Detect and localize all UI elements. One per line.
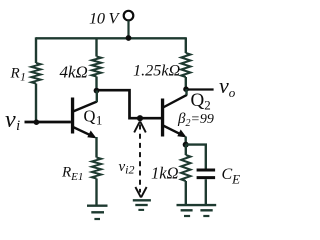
wire RE1 to ground <box>95 179 97 205</box>
wire R1 branch lower <box>35 84 37 123</box>
svg-text:1.25kΩ: 1.25kΩ <box>133 61 181 79</box>
svg-text:1kΩ: 1kΩ <box>151 164 179 183</box>
wire 1k to ground <box>185 181 187 204</box>
resistor R1 <box>31 63 40 84</box>
svg-text:10 V: 10 V <box>89 8 120 27</box>
resistor 1.25kOhm <box>181 53 190 77</box>
ground RE1 <box>87 206 108 219</box>
arrow vi2 up (open arrowhead under node) <box>134 122 146 133</box>
transistor Q2 <box>161 89 187 137</box>
node vo junction dot <box>183 86 189 92</box>
supply terminal circle 10V <box>124 11 134 38</box>
wire capacitor to ground <box>205 179 207 204</box>
capacitor CE <box>197 170 216 178</box>
wire 4k branch lower <box>95 77 97 91</box>
node collector Q1 junction dot <box>94 88 100 94</box>
wire 1.25k branch lower <box>185 77 187 89</box>
wire collector node to Q2 base (right, down, right) <box>97 90 162 118</box>
resistor 4kOhm <box>92 57 101 77</box>
wire emitter Q2 <box>184 137 186 145</box>
svg-text:β2=99: β2=99 <box>177 111 214 129</box>
transistor Q1 <box>71 91 97 139</box>
wire capacitor branch top <box>186 145 206 169</box>
resistor 1kOhm <box>181 155 190 181</box>
wire vo output <box>186 88 214 90</box>
wire emitter Q1 <box>95 137 97 158</box>
svg-text:vi2: vi2 <box>119 159 135 177</box>
junction dot supply on rail <box>126 35 132 41</box>
node vi2 junction dot <box>137 115 143 121</box>
wire vi2 dashed <box>139 125 141 193</box>
resistor RE1 <box>92 158 101 179</box>
svg-text:4kΩ: 4kΩ <box>60 63 88 82</box>
wire top rail <box>36 37 186 39</box>
node emitter Q2 junction dot <box>183 142 189 148</box>
wire base Q1 input <box>25 121 71 124</box>
wire 1.25k branch upper <box>185 37 187 53</box>
wire 1k branch upper <box>185 145 187 156</box>
ground vi2 <box>133 200 151 210</box>
arrow vi2 down (open arrowhead at ground) <box>135 187 146 197</box>
ground shared 1k and CE <box>177 205 217 216</box>
wire R1 branch upper <box>35 37 37 63</box>
wire 4k branch upper <box>95 38 97 57</box>
node base Q1 junction dot <box>34 119 40 125</box>
